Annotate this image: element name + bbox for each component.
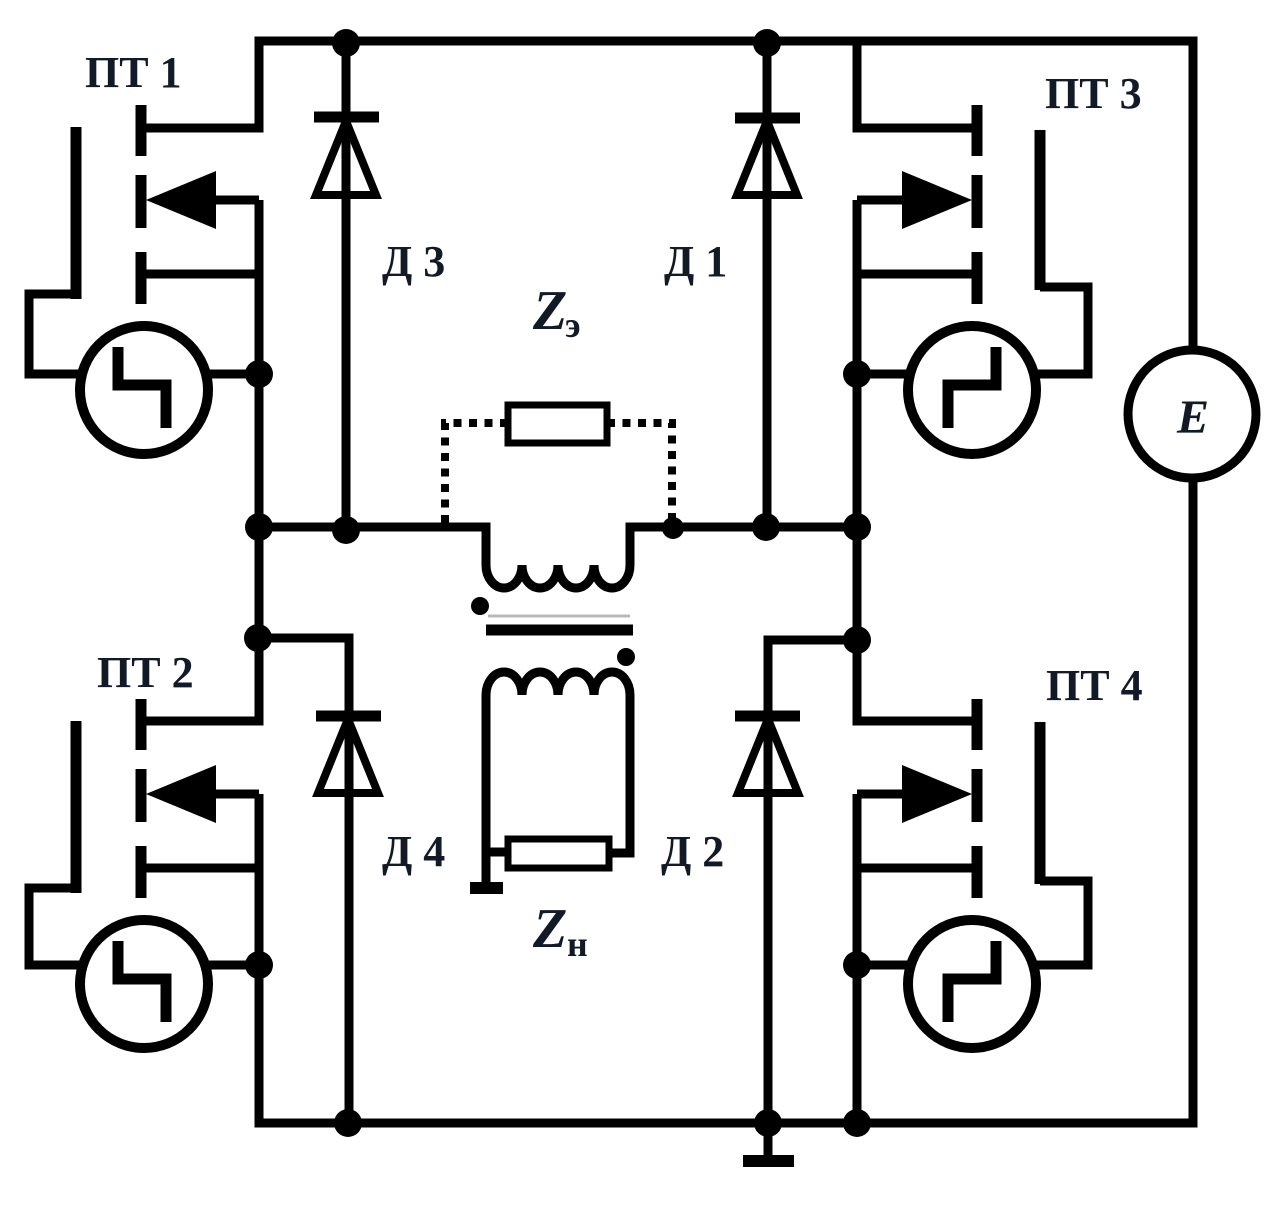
junction: right bus / Д1 bbox=[752, 513, 780, 541]
junction: bottom rail / Д2 bbox=[754, 1109, 782, 1137]
wire: secondary right lead bbox=[609, 695, 630, 853]
ground: transformer secondary bbox=[470, 882, 503, 894]
wire: ПТ2 gate lead bbox=[29, 888, 80, 965]
svg-text:Д 1: Д 1 bbox=[664, 237, 727, 286]
wire: ПТ2 drain branch from mid-left node bbox=[141, 638, 259, 721]
wire: ПТ2 source vertical to bottom rail bbox=[255, 794, 264, 965]
junction: ПТ2 source node bbox=[245, 951, 273, 979]
diode Д2 bbox=[735, 716, 800, 793]
transistor ПТ2 (MOSFET) bbox=[76, 699, 259, 898]
junction: mid-left node / Д4 bbox=[244, 624, 272, 652]
junction: top rail / Д1 bbox=[753, 29, 781, 57]
wire: ground stub on bottom rail bbox=[764, 1123, 773, 1155]
transistor ПТ4 (MOSFET, mirrored) bbox=[857, 699, 1040, 898]
svg-text:E: E bbox=[1176, 391, 1209, 444]
wire: ПТ1 source vertical down to mid-left nodes bbox=[255, 200, 264, 642]
svg-text:Z: Z bbox=[532, 280, 567, 342]
junction: mid-right node / Д2 bbox=[843, 626, 871, 654]
source E (battery) bbox=[1128, 350, 1256, 478]
wire: diode Д4 branch (mid-left node to bottom rail) bbox=[258, 638, 349, 1123]
gate drive source of ПТ2 bbox=[80, 920, 208, 1048]
svg-text:Д 4: Д 4 bbox=[382, 827, 445, 876]
svg-text:ПТ 2: ПТ 2 bbox=[97, 648, 194, 697]
wire: ПТ2 drive to source node bbox=[206, 961, 259, 970]
gate drive source of ПТ1 bbox=[80, 326, 208, 454]
svg-text:Д 3: Д 3 bbox=[382, 237, 445, 286]
resistor Zн (load impedance) bbox=[508, 839, 609, 868]
wire: Zн left connector bbox=[486, 848, 508, 857]
wire: ПТ3 drive to source node bbox=[857, 370, 910, 379]
transistor ПТ3 (MOSFET, mirrored) bbox=[857, 105, 1040, 304]
transformer T1 primary winding bbox=[486, 565, 630, 588]
junction: ПТ4 source node bbox=[843, 951, 871, 979]
wire: left mid bus to transformer primary left lead bbox=[259, 527, 486, 565]
junction: ПТ1 source node bbox=[245, 360, 273, 388]
junction: left bus / Д3 bbox=[332, 516, 360, 544]
wire: diode Д2 branch (mid-right node to bottom rail) bbox=[768, 640, 857, 1123]
wire: ПТ3 source vertical through right mid nodes bbox=[853, 200, 862, 644]
transformer T1 secondary winding bbox=[486, 672, 630, 695]
wire: diode Д1 branch (top rail to right bus) bbox=[763, 43, 772, 527]
resistor Zэ (equivalent impedance, dotted connection) bbox=[508, 405, 607, 443]
junction: right bus / ПТ3 bbox=[843, 513, 871, 541]
wire: ПТ4 drive to source node bbox=[857, 961, 911, 970]
diode Д4 bbox=[316, 716, 381, 793]
ground: bottom rail bbox=[743, 1155, 794, 1167]
svg-text:Z: Z bbox=[532, 898, 567, 960]
svg-text:ПТ 3: ПТ 3 bbox=[1045, 69, 1142, 118]
wire: diode Д3 branch (top rail to left bus) bbox=[342, 43, 351, 530]
wire: ПТ4 source vertical to bottom rail bbox=[853, 794, 862, 1123]
diode Д1 bbox=[735, 118, 800, 195]
gate drive source of ПТ3 bbox=[908, 326, 1036, 454]
wire: ПТ3 drain stub to top rail bbox=[857, 41, 977, 128]
diode Д3 bbox=[314, 117, 379, 195]
junction: right bus / Zэ dotted lead bbox=[662, 517, 684, 539]
svg-text:Д 2: Д 2 bbox=[661, 827, 724, 876]
wire: dotted left connection of Zэ bbox=[445, 423, 508, 525]
wire: ПТ4 drain branch bbox=[857, 640, 977, 721]
svg-text:э: э bbox=[565, 305, 581, 345]
junction: ПТ3 source node bbox=[843, 360, 871, 388]
wire: dotted right connection of Zэ bbox=[607, 423, 672, 522]
junction: bottom rail / Д4 bbox=[334, 1109, 362, 1137]
svg-text:ПТ 1: ПТ 1 bbox=[85, 48, 182, 97]
wire: top positive rail with ПТ1 drain stub and drop to E bbox=[141, 41, 1193, 350]
transistor ПТ1 (MOSFET) bbox=[76, 105, 259, 304]
wire: secondary left lead down to ground bbox=[482, 695, 491, 890]
junction: bottom rail / ПТ4 bbox=[843, 1109, 871, 1137]
wire: ПТ1 drive to source node bbox=[206, 370, 259, 379]
svg-text:ПТ 4: ПТ 4 bbox=[1046, 661, 1143, 710]
wire: ПТ3 gate lead bbox=[1034, 287, 1088, 374]
junction: left bus / ПТ1 bbox=[245, 513, 273, 541]
wire: ПТ4 gate lead bbox=[1034, 881, 1088, 965]
transformer core bbox=[486, 616, 633, 630]
phase dot: secondary bbox=[617, 648, 635, 666]
gate drive source of ПТ4 bbox=[908, 920, 1036, 1048]
junction: top rail / Д3 bbox=[332, 29, 360, 57]
svg-text:н: н bbox=[567, 924, 588, 964]
wire: transformer primary right lead and right mid bus bbox=[630, 527, 857, 565]
wire: ПТ1 gate lead bbox=[29, 294, 80, 374]
phase dot: primary bbox=[471, 597, 489, 615]
wire: bottom rail from E through to ПТ2 source branch bbox=[259, 478, 1193, 1123]
